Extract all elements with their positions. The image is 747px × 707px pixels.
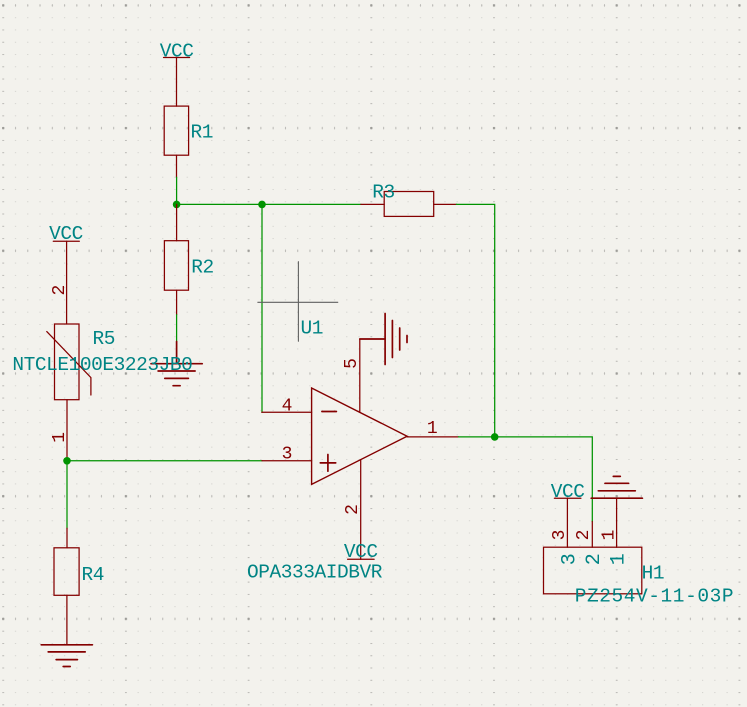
svg-text:4: 4 bbox=[282, 396, 293, 416]
U1 pin 5 bbox=[342, 339, 362, 412]
junction node B bbox=[258, 201, 266, 209]
svg-text:1: 1 bbox=[599, 530, 619, 541]
R5 pin 1 number bbox=[50, 432, 70, 443]
svg-text:1: 1 bbox=[427, 419, 438, 439]
svg-text:H1: H1 bbox=[642, 563, 665, 585]
power VCC #PWR03 (below U1 pin 2) bbox=[344, 541, 378, 563]
cursor crosshair bbox=[258, 262, 338, 342]
power VCC #PWR01 (top, feeds R1) bbox=[160, 41, 194, 82]
inverting input marker bbox=[322, 411, 337, 413]
wire U1 output to node D bbox=[459, 436, 495, 438]
wire node B to R3 left pin bbox=[262, 203, 361, 205]
svg-text:R1: R1 bbox=[191, 122, 214, 144]
junction node C bbox=[63, 457, 71, 465]
svg-text:R2: R2 bbox=[191, 257, 214, 279]
svg-text:OPA333AIDBVR: OPA333AIDBVR bbox=[247, 561, 383, 583]
R5 pin 2 number bbox=[50, 285, 70, 296]
svg-text:U1: U1 bbox=[301, 317, 324, 339]
U1 pin 3 bbox=[262, 445, 312, 465]
H1 pin 1 bbox=[599, 499, 630, 565]
wire node A to node B bbox=[177, 203, 262, 205]
wire R3 right pin to feedback node bbox=[456, 204, 494, 437]
svg-text:2: 2 bbox=[343, 504, 363, 515]
wire node B down to U1 pin 4 bbox=[261, 204, 263, 412]
svg-text:R3: R3 bbox=[372, 182, 395, 204]
power VCC #PWR02 (left, feeds R5) bbox=[49, 223, 83, 264]
svg-text:2: 2 bbox=[583, 553, 606, 565]
H1 pin 2 bbox=[574, 522, 606, 566]
svg-text:3: 3 bbox=[558, 553, 581, 565]
resistor R1 bbox=[164, 82, 213, 177]
power VCC #PWR04 (above H1 pin 3) bbox=[551, 481, 585, 503]
ground (below R4) bbox=[41, 645, 92, 667]
svg-text:3: 3 bbox=[550, 530, 570, 541]
svg-text:PZ254V-11-03P: PZ254V-11-03P bbox=[575, 586, 734, 608]
svg-text:2: 2 bbox=[50, 285, 70, 296]
wire node D to H1 pin 2 bbox=[495, 437, 593, 522]
resistor R2 bbox=[164, 204, 213, 314]
H1 pin 3 bbox=[550, 498, 582, 565]
svg-text:NTCLE100E3223JB0: NTCLE100E3223JB0 bbox=[12, 354, 192, 376]
ground (right of U1 pin 5, rotated) bbox=[360, 314, 407, 365]
non-inverting input marker bbox=[320, 462, 335, 464]
svg-text:2: 2 bbox=[574, 530, 594, 541]
U1 pin 4 bbox=[262, 396, 312, 416]
U1 pin 1 bbox=[407, 419, 458, 439]
resistor R3 bbox=[361, 182, 457, 217]
ground (below R2) bbox=[151, 342, 202, 386]
svg-text:1: 1 bbox=[608, 553, 631, 565]
junction node D bbox=[491, 433, 499, 441]
wire R2 to ground bbox=[176, 315, 178, 342]
op-amp U1 OPA333AIDBVR bbox=[247, 317, 407, 583]
svg-text:3: 3 bbox=[282, 445, 293, 465]
wire node C down to R4 bbox=[66, 461, 68, 529]
U1 pin 2 bbox=[343, 460, 363, 560]
thermistor R5 NTCLE100E3223JB0 bbox=[12, 264, 192, 461]
svg-text:5: 5 bbox=[342, 358, 362, 369]
wire R1 to node A bbox=[176, 177, 178, 204]
junction node A bbox=[173, 201, 181, 209]
resistor R4 bbox=[54, 528, 104, 645]
ground (above H1 pin 1, flipped) bbox=[591, 476, 642, 498]
svg-text:R4: R4 bbox=[82, 564, 105, 586]
wire node C to U1 pin 3 bbox=[67, 460, 262, 462]
connector H1 PZ254V-11-03P bbox=[544, 547, 735, 607]
svg-text:1: 1 bbox=[50, 432, 70, 443]
svg-text:R5: R5 bbox=[93, 328, 116, 350]
